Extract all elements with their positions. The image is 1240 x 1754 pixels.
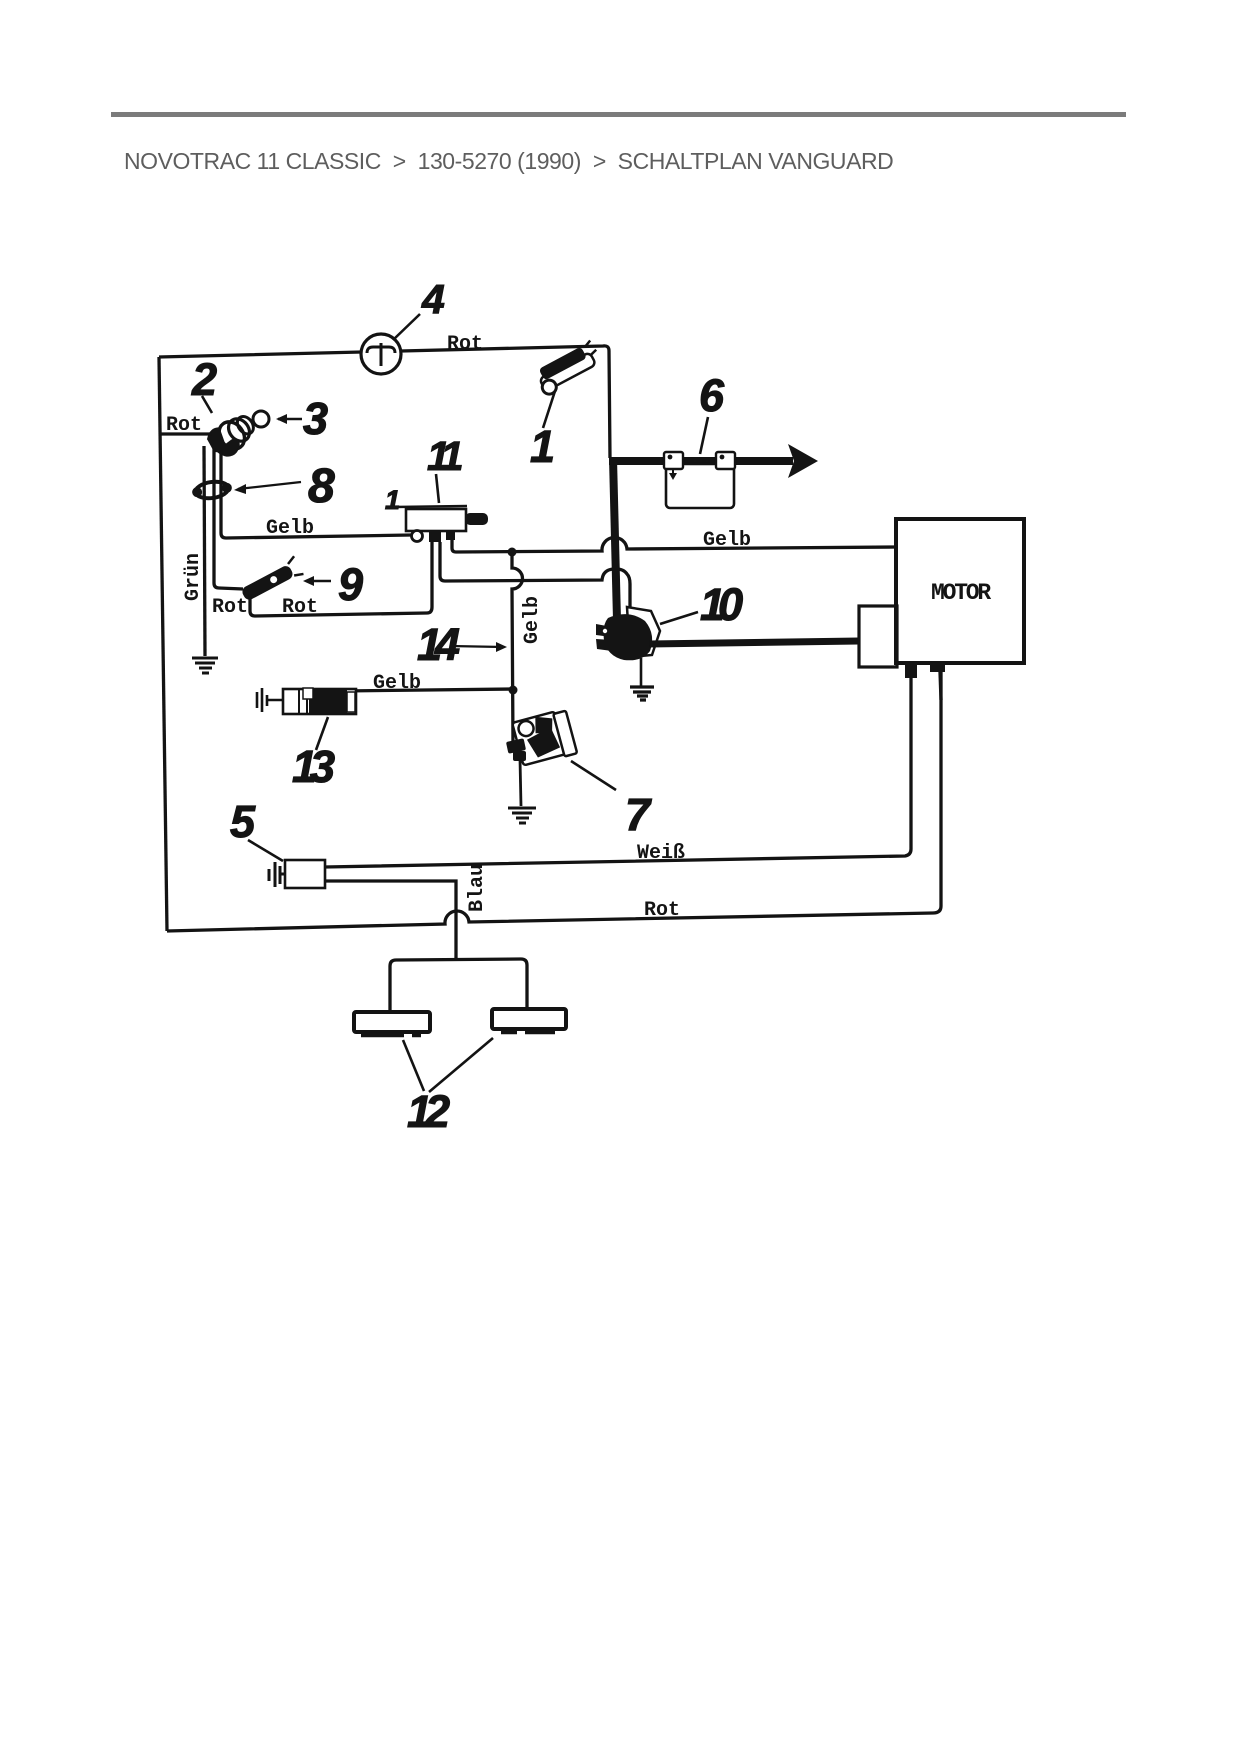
leader 10 bbox=[660, 612, 698, 624]
svg-text:Gelb: Gelb bbox=[266, 517, 314, 540]
svg-text:9: 9 bbox=[338, 559, 363, 610]
svg-text:Blau: Blau bbox=[466, 864, 489, 912]
svg-text:1: 1 bbox=[385, 485, 400, 515]
switch 7 bbox=[512, 709, 577, 768]
wire Gruen: switch 2 down to ground bbox=[204, 446, 205, 656]
motor pin stubs bbox=[905, 663, 917, 678]
connector 9 bbox=[238, 556, 303, 603]
leader 13 bbox=[316, 717, 328, 750]
starter terminal box bbox=[859, 606, 897, 667]
arrow 9 bbox=[306, 580, 331, 583]
svg-text:Grün: Grün bbox=[182, 553, 205, 601]
wire Rot: connector 9 down and right to fuse 11 bottom bbox=[250, 542, 432, 616]
wire Gelb: fuse 11 pin to junction and motor bbox=[452, 537, 896, 552]
svg-text:Weiß: Weiß bbox=[637, 842, 685, 865]
leader 12 left bbox=[403, 1040, 424, 1091]
ignition switch 2 bbox=[203, 408, 262, 464]
leader 11 bbox=[436, 474, 439, 503]
svg-text:5: 5 bbox=[230, 796, 256, 847]
motor box bbox=[896, 519, 1024, 663]
svg-text:Gelb: Gelb bbox=[373, 672, 421, 695]
wire: fuse 11 pin down, right, hop, down to solenoid 10 bbox=[440, 542, 630, 608]
switch 5 bbox=[285, 860, 325, 888]
wire Blau: switch 5 down to lamp branch bbox=[325, 881, 456, 960]
svg-text:2: 2 bbox=[191, 354, 217, 405]
wire Weiss vertical from motor bbox=[909, 678, 912, 849]
clamp 8 bbox=[191, 479, 233, 500]
lamp 12 left bbox=[354, 1012, 430, 1035]
wire: switch 7 to ground bbox=[520, 759, 521, 806]
leader 7 bbox=[571, 761, 616, 790]
svg-text:4: 4 bbox=[421, 276, 445, 322]
leader 6 bbox=[700, 417, 708, 454]
svg-text:Rot: Rot bbox=[447, 333, 483, 356]
ground under solenoid 10 bbox=[630, 687, 654, 700]
svg-text:7: 7 bbox=[625, 789, 652, 840]
wire bottom Rot: left corner, hop over Blau, to motor pin bbox=[167, 671, 941, 931]
svg-text:Gelb: Gelb bbox=[703, 529, 751, 552]
battery 6 bbox=[666, 464, 734, 508]
lamp branch wires bbox=[390, 958, 527, 1013]
thick wire to battery 6 and arrow bbox=[609, 457, 793, 465]
wire Gelb: switch 2 down, right to fuse 11 bbox=[221, 450, 411, 538]
thick cable: solenoid 10 to starter box bbox=[649, 641, 859, 644]
diode 13 bbox=[257, 688, 283, 712]
arrow 14 bbox=[450, 646, 503, 647]
connector 3 bbox=[253, 411, 269, 427]
fuse holder 11 bbox=[395, 506, 467, 507]
junction dot bbox=[508, 548, 517, 557]
svg-text:Gelb: Gelb bbox=[521, 596, 544, 644]
svg-text:MOTOR: MOTOR bbox=[931, 580, 991, 606]
connector 1 bbox=[533, 340, 605, 397]
wire Rot to switch 2 bbox=[161, 432, 212, 435]
wire: solenoid 10 to ground bbox=[640, 658, 643, 687]
svg-text:Rot: Rot bbox=[212, 596, 248, 619]
leader 12 right bbox=[429, 1038, 493, 1092]
wire Rot vertical from motor bbox=[940, 672, 941, 700]
thick wire: corner down to solenoid 10 bbox=[613, 458, 617, 620]
junction dot Gelb 13 bbox=[509, 686, 518, 695]
ground under Gruen wire bbox=[192, 658, 218, 673]
leader 2 bbox=[202, 396, 212, 413]
ground under switch 7 bbox=[508, 808, 536, 823]
wire Gelb: diode 13 to junction bbox=[341, 689, 513, 691]
svg-text:8: 8 bbox=[308, 460, 335, 513]
svg-text:11: 11 bbox=[427, 433, 462, 479]
svg-text:NOVOTRAC 11 CLASSIC > 130-52: NOVOTRAC 11 CLASSIC > 130-5270 (1990) > … bbox=[124, 148, 893, 174]
leader 4 bbox=[393, 314, 420, 340]
wire Gelb vertical: junction down, hop, to switch 7 bbox=[512, 552, 523, 745]
svg-text:6: 6 bbox=[699, 370, 725, 421]
leader 1 bbox=[543, 391, 555, 428]
ammeter 4 bbox=[361, 334, 401, 374]
leader 5 bbox=[248, 840, 283, 861]
wire Rot: switch 2 down to connector 9 bbox=[214, 448, 243, 589]
arrow 8 bbox=[238, 482, 301, 489]
wire left vertical Rot bbox=[159, 357, 167, 931]
svg-text:1: 1 bbox=[530, 421, 555, 472]
wire top Rot: left corner to right corner bbox=[159, 346, 610, 458]
solenoid 10 bbox=[627, 607, 660, 657]
svg-text:3: 3 bbox=[303, 393, 328, 444]
svg-text:Rot: Rot bbox=[644, 899, 680, 922]
wire Weiss: switch 5 to motor bbox=[325, 849, 911, 867]
lamp 12 right bbox=[492, 1009, 566, 1032]
header rule bbox=[111, 112, 1126, 117]
arrow 3 bbox=[278, 418, 302, 421]
